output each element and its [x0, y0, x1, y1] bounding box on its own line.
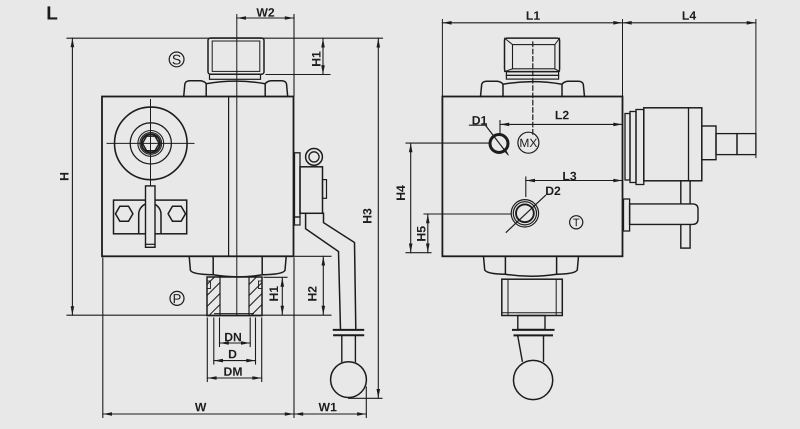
svg-text:H1: H1	[267, 286, 281, 302]
svg-text:L1: L1	[526, 9, 540, 23]
svg-text:D1: D1	[472, 113, 488, 127]
svg-text:W1: W1	[319, 400, 338, 414]
svg-text:H3: H3	[360, 208, 374, 224]
svg-text:P: P	[173, 291, 182, 306]
svg-text:L2: L2	[555, 108, 569, 122]
svg-text:H4: H4	[394, 185, 408, 201]
svg-text:DN: DN	[224, 330, 242, 344]
svg-text:H1: H1	[310, 51, 324, 67]
svg-text:S: S	[172, 51, 181, 67]
svg-text:D: D	[228, 347, 237, 361]
svg-text:DM: DM	[224, 365, 243, 379]
svg-text:L: L	[46, 3, 58, 24]
svg-text:H: H	[58, 172, 72, 181]
svg-text:H2: H2	[306, 286, 320, 302]
svg-text:H5: H5	[414, 226, 428, 242]
svg-text:W2: W2	[256, 6, 275, 20]
svg-text:L4: L4	[682, 9, 696, 23]
svg-text:T: T	[573, 217, 580, 229]
svg-text:W: W	[195, 400, 207, 414]
svg-text:D2: D2	[545, 184, 561, 198]
svg-text:L3: L3	[562, 169, 576, 183]
svg-text:MX: MX	[519, 136, 537, 150]
